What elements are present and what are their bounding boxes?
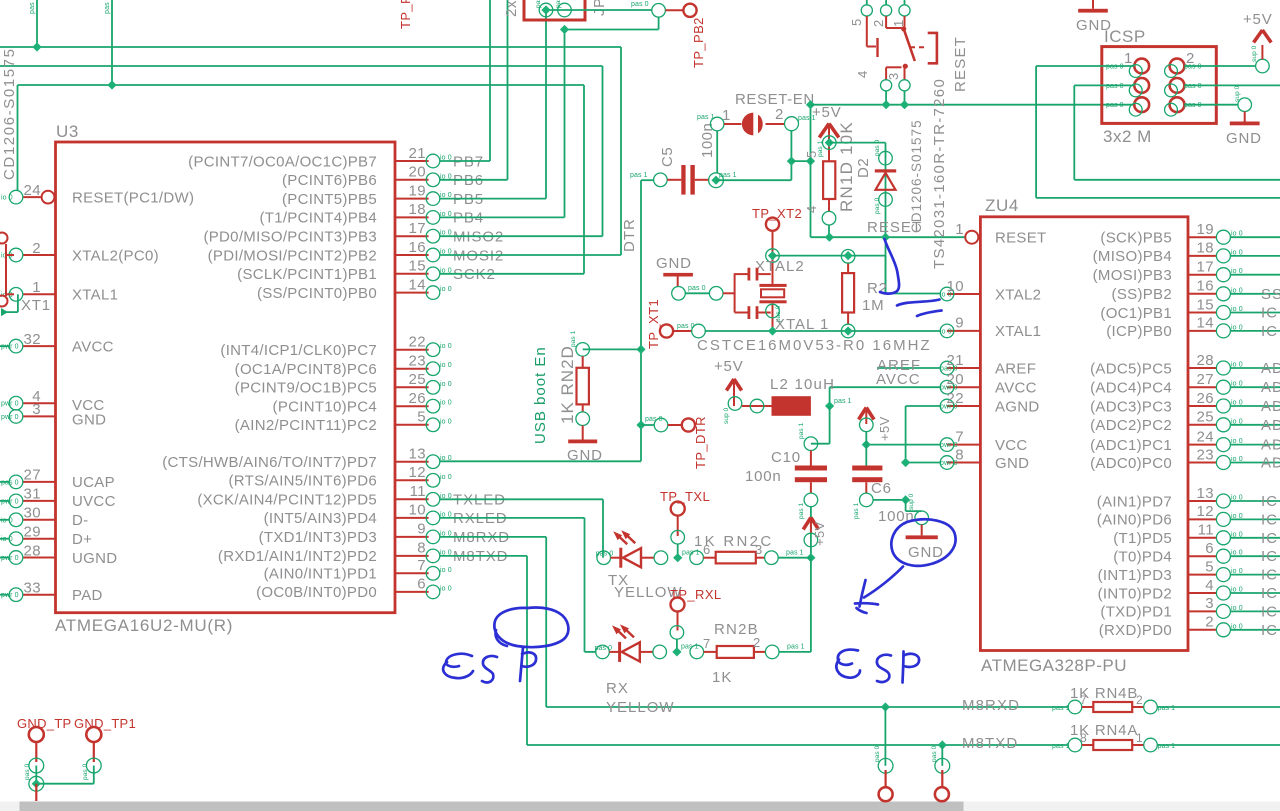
svg-text:7: 7 [417,557,426,574]
wire net PB6-top bus y66 [0,65,603,67]
svg-text:pas 1: pas 1 [834,398,852,405]
svg-text:2: 2 [1186,50,1194,67]
wire SJ1-1 down [716,131,718,173]
ZU4 pin 22 AGND [947,405,980,407]
svg-text:24: 24 [24,182,42,199]
wire +5V stem [828,126,830,162]
svg-text:pas 1: pas 1 [1158,743,1176,750]
button wires bottom [885,91,887,105]
wire GND_TP stem down [35,784,37,801]
svg-text:2: 2 [753,635,760,650]
svg-text:(INT0)PD2: (INT0)PD2 [1098,585,1172,602]
node TP_DTR junction [636,420,645,429]
svg-text:(INT5/AIN3)PD4: (INT5/AIN3)PD4 [264,510,377,527]
svg-text:(MISO)PB4: (MISO)PB4 [1093,248,1172,265]
svg-text:DTR: DTR [621,218,638,252]
U3 pin 19 (PCINT5)PB5 [395,198,429,200]
svg-text:33: 33 [24,580,42,597]
U3 pin 28 UGND [23,557,56,559]
svg-text:io 0: io 0 [440,400,452,407]
svg-text:pas 0: pas 0 [874,139,881,156]
wire JP pin1 row [546,9,652,11]
svg-text:GND: GND [908,544,944,561]
wire PB6 [440,179,508,181]
svg-text:sup 0: sup 0 [1251,45,1258,62]
ZU4 pin 14 (ICP)PB0 [1188,330,1217,332]
wire M8RXD [440,536,546,538]
U3 pin 25 (PCINT9/OC1B)PC5 [395,386,429,388]
svg-text:IC: IC [1261,548,1278,565]
U3 pin 29 D+ [23,538,56,540]
svg-text:ATMEGA328P-PU: ATMEGA328P-PU [981,656,1127,675]
annotation circle GND [891,519,955,565]
U3 pin 15 (SCLK/PCINT1)PB1 [395,273,429,275]
svg-text:16: 16 [409,239,427,256]
svg-text:14: 14 [1197,315,1215,332]
svg-text:pas 0: pas 0 [1184,102,1202,109]
ZU4 pin 5 (INT1)PD3 [1188,574,1217,576]
svg-text:pas: pas [535,0,542,8]
svg-text:io 0: io 0 [940,328,952,335]
IC U3 box [56,142,396,613]
svg-text:io 0: io 0 [440,362,452,369]
wire MISO2 [440,235,603,237]
svg-text:25: 25 [409,371,427,388]
U3 pin 27 UCAP [23,481,56,483]
svg-text:GND: GND [72,412,106,429]
svg-text:pas 1: pas 1 [853,502,860,519]
capacitor C10 [804,437,818,451]
svg-text:3: 3 [755,542,762,557]
jumper SJ1 body [724,123,742,125]
wire XT1 net [17,294,19,312]
svg-text:USB boot En: USB boot En [532,346,549,444]
svg-text:io 0: io 0 [1,195,13,202]
wire ICSP row1 right [1184,65,1255,67]
wire RESET to ZU4 [811,236,966,238]
svg-text:io 0: io 0 [440,343,452,350]
button S1 body [866,16,868,47]
power +5V TX rail [803,518,818,530]
svg-text:CSTCE16M0V53-R0 16MHZ: CSTCE16M0V53-R0 16MHZ [697,337,932,354]
svg-text:(ADC5)PC5: (ADC5)PC5 [1090,360,1172,377]
wire ICSP row2 right [1184,84,1280,86]
svg-text:RESET: RESET [952,36,969,92]
ZU4 pin 28 (ADC5)PC5 [1188,367,1217,369]
svg-text:AD: AD [1261,360,1280,377]
svg-text:5: 5 [417,409,426,426]
svg-text:pas 1: pas 1 [1052,743,1070,750]
jumper SJ1 pad2 [785,117,799,131]
svg-text:GND_TP1: GND_TP1 [74,716,136,731]
svg-text:(T1/PCINT4)PB4: (T1/PCINT4)PB4 [259,210,377,227]
svg-text:IC: IC [1261,305,1278,322]
svg-text:GND: GND [1226,130,1262,147]
ZU4 pin 18 (MISO)PB4 [1188,255,1217,257]
ZU4 pin 26 (ADC3)PC3 [1188,405,1217,407]
U3 pin 23 (OC1A/PCINT8)PC6 [395,368,429,370]
svg-text:GND_TP: GND_TP [17,716,72,731]
svg-text:(MOSI)PB3: (MOSI)PB3 [1093,267,1172,284]
svg-text:30: 30 [24,505,42,522]
svg-text:io 0: io 0 [1,536,13,543]
svg-text:1M: 1M [862,297,884,314]
svg-text:17: 17 [409,220,427,237]
ZU4 pin 20 AVCC [947,386,980,388]
svg-text:IC: IC [1261,530,1278,547]
svg-text:pas 0: pas 0 [1184,83,1202,90]
connector JP 2x box [524,0,585,20]
svg-text:IC: IC [1261,622,1278,639]
svg-text:1: 1 [1124,50,1132,67]
wire L2 to C10 [829,406,831,444]
svg-text:RESET(PC1/DW): RESET(PC1/DW) [72,189,194,206]
svg-text:pwr 0: pwr 0 [1,414,19,421]
wire DTR pin13 [440,460,641,462]
button pads bottom [881,80,892,91]
svg-text:1K RN2D: 1K RN2D [558,345,577,424]
U3 pin 4 VCC [23,402,56,404]
wire C5 to DTR riser [641,179,654,181]
svg-text:io 0: io 0 [440,585,452,592]
svg-text:5: 5 [1205,558,1214,575]
node TP_RXL junction [672,647,681,656]
svg-text:6: 6 [703,542,710,557]
svg-text:+5V: +5V [877,416,892,441]
resistor RN1D [823,161,835,199]
capacitor C5 [654,173,668,187]
svg-text:RESET: RESET [995,230,1047,247]
svg-text:C5: C5 [659,147,676,167]
svg-text:pas 0: pas 0 [677,323,695,330]
svg-text:(OC0B/INT0)PD0: (OC0B/INT0)PD0 [256,584,377,601]
testpoint TP_PB [652,4,666,18]
svg-text:25: 25 [1197,409,1215,426]
svg-text:7: 7 [1080,693,1087,707]
svg-text:5: 5 [849,19,864,26]
wire RXLED [440,517,585,519]
wire RN4A right [1157,744,1280,746]
svg-text:CD1206-S01575: CD1206-S01575 [1,47,18,180]
svg-text:UCAP: UCAP [72,474,115,491]
resonator Y1 bracket [734,273,736,312]
wire ICSP row1 left [1036,65,1134,67]
svg-text:AD: AD [1261,417,1280,434]
svg-text:IC: IC [1261,603,1278,620]
svg-text:(AIN2/PCINT11)PC2: (AIN2/PCINT11)PC2 [235,417,377,434]
svg-text:pas 1: pas 1 [1052,705,1070,712]
U3 pin 2 XTAL2(PC0) [23,254,56,256]
svg-text:(PCINT5)PB5: (PCINT5)PB5 [282,191,377,208]
wire GND [906,462,941,464]
U3 pin 32 AVCC [23,345,56,347]
svg-text:pas 0: pas 0 [1,479,19,486]
U3 pin 11 (XCK/AIN4/PCINT12)PD5 [395,498,429,500]
node XTAL2 junction [766,249,780,263]
ground GND C6 [915,511,929,525]
wire jog to reset riser [791,160,810,162]
wire PB7 [440,160,490,162]
svg-text:pas 1: pas 1 [719,172,737,179]
wire SJ1-2 down [790,131,792,181]
svg-text:pwr 0: pwr 0 [1,592,19,599]
U3 pin 20 (PCINT6)PB6 [395,179,429,181]
svg-text:8: 8 [955,446,964,463]
svg-text:27: 27 [1197,371,1215,388]
wire TX to RX rail [810,558,812,652]
svg-text:(SCK)PB5: (SCK)PB5 [1100,230,1172,247]
wire AGND [906,405,941,407]
U3 pin 14 (SS/PCINT0)PB0 [395,292,429,294]
svg-text:pas 0: pas 0 [1106,64,1124,71]
svg-text:7: 7 [955,428,964,445]
ZU4 pin 4 (INT0)PD2 [1188,592,1217,594]
svg-text:20: 20 [409,164,427,181]
wire TXLED [440,498,603,500]
ZU4 pin 13 (AIN1)PD7 [1188,500,1217,502]
U3 pin 22 (INT4/ICP1/CLK0)PC7 [395,349,429,351]
svg-text:(SS)PB2: (SS)PB2 [1112,286,1172,303]
jumper SJ1 pad1 [710,117,724,131]
svg-text:6: 6 [417,576,426,593]
resistor R2 [847,262,849,273]
testpoint GND_TP [29,727,44,742]
svg-text:io 0: io 0 [440,418,452,425]
U3 pin 24 RESET(PC1/DW) [23,196,42,198]
svg-text:(T0)PD4: (T0)PD4 [1113,549,1172,566]
svg-text:pas 1: pas 1 [786,550,804,557]
svg-text:io 0: io 0 [440,567,452,574]
svg-text:3: 3 [32,401,41,418]
svg-text:28: 28 [24,542,42,559]
svg-text:TP_RXL: TP_RXL [670,587,722,602]
wire M8TXD [440,555,527,557]
diode D2 column [885,143,887,294]
ZU4 pin 11 (T1)PD5 [1188,537,1217,539]
svg-text:AVCC: AVCC [876,371,921,388]
svg-text:PAD: PAD [72,587,103,604]
svg-text:sup 0: sup 0 [908,493,915,510]
svg-text:(RXD1/AIN1/INT2)PD2: (RXD1/AIN1/INT2)PD2 [218,548,377,565]
node RN1D bottom [828,199,830,212]
ZU4 pin 7 VCC [947,444,980,446]
svg-text:(AIN0/INT1)PD1: (AIN0/INT1)PD1 [264,566,377,583]
svg-text:TP_TXL: TP_TXL [660,489,710,504]
svg-text:(ADC1)PC1: (ADC1)PC1 [1090,437,1172,454]
svg-text:AD: AD [1261,455,1280,472]
svg-text:pas 1: pas 1 [697,114,715,121]
svg-text:(OC1)PB1: (OC1)PB1 [1100,305,1172,322]
wire XTAL1 net [692,324,706,338]
svg-text:pwr 0: pwr 0 [1,344,19,351]
svg-text:16: 16 [1197,278,1215,295]
ZU4 pin 25 (ADC2)PC2 [1188,424,1217,426]
svg-text:pas 0: pas 0 [688,285,706,292]
svg-text:U3: U3 [56,122,79,141]
svg-text:TP_XT1: TP_XT1 [646,299,661,349]
svg-text:pas 1: pas 1 [798,502,805,519]
svg-text:1K: 1K [712,669,732,686]
svg-text:(INT1)PD3: (INT1)PD3 [1098,567,1172,584]
node M8TXD tp drop [938,740,947,749]
U3 pin 8 (RXD1/AIN1/INT2)PD2 [395,555,429,557]
svg-text:11: 11 [1198,522,1214,539]
U3 pin 18 (T1/PCINT4)PB4 [395,216,429,218]
svg-text:sup 0: sup 0 [1234,85,1241,102]
svg-text:AREF: AREF [995,360,1036,377]
testpoint bottom left [878,758,893,773]
power +5V ICSP [1261,45,1263,59]
resonator gnd pin [672,287,686,301]
svg-text:AD: AD [1261,379,1280,396]
svg-text:17: 17 [1197,259,1215,276]
svg-text:1: 1 [32,279,41,296]
annotation ESP left [446,654,472,667]
svg-text:TP_DTR: TP_DTR [693,416,708,469]
svg-text:(RXD)PD0: (RXD)PD0 [1099,622,1172,639]
ZU4 pin 17 (MOSI)PB3 [1188,274,1217,276]
diode D2 [879,151,893,165]
svg-text:C6: C6 [871,480,892,497]
svg-text:io 0: io 0 [440,381,452,388]
svg-text:10: 10 [947,278,965,295]
wire ICSP row2 right-rail [1074,179,1280,181]
svg-text:pwr 0: pwr 0 [1,498,19,505]
annotation circle left [494,608,568,648]
svg-text:3: 3 [1205,595,1214,612]
U3 pin 5 (AIN2/PCINT11)PC2 [395,424,429,426]
svg-text:TP_PB1: TP_PB1 [398,0,413,29]
svg-text:XTAL2: XTAL2 [995,286,1041,303]
svg-text:26: 26 [409,390,427,407]
svg-text:(SS/PCINT0)PB0: (SS/PCINT0)PB0 [257,285,377,302]
svg-text:(ICP)PB0: (ICP)PB0 [1106,323,1172,340]
svg-text:22: 22 [947,390,965,407]
svg-text:D+: D+ [72,531,92,548]
ZU4 RESET bubble [965,231,978,244]
node TX junction [806,553,815,562]
testpoint bottom right [935,758,950,773]
wire C5jn right [716,179,791,181]
ZU4 pin 2 (RXD)PD0 [1188,629,1217,631]
svg-text:4: 4 [855,71,870,78]
svg-text:(PDI/MOSI/PCINT2)PB2: (PDI/MOSI/PCINT2)PB2 [208,247,377,264]
svg-text:(ADC4)PC4: (ADC4)PC4 [1090,380,1172,397]
node M8RXD tp drop [881,702,890,711]
wire pin24 riser [17,85,19,191]
svg-text:23: 23 [1197,446,1215,463]
header ICSP box [1102,47,1217,124]
svg-text:100n: 100n [699,123,716,158]
svg-text:XTAL1: XTAL1 [72,287,118,304]
wire JP pin2 row [565,29,659,31]
svg-text:32: 32 [24,331,42,348]
U3 pin 26 (PCINT10)PC4 [395,405,429,407]
wire PB4 [440,216,565,218]
U3 pin 13 (CTS/HWB/AIN6/TO/INT7)PD7 [395,461,429,463]
svg-text:23: 23 [409,353,427,370]
svg-text:(PD0/MISO/PCINT3)PB3: (PD0/MISO/PCINT3)PB3 [203,229,377,246]
testpoint GND_TP1 [86,727,101,742]
wire PB5 [440,198,546,200]
svg-text:4: 4 [804,206,819,213]
svg-text:(RTS/AIN5/INT6)PD6: (RTS/AIN5/INT6)PD6 [229,473,378,490]
svg-text:(SCLK/PCINT1)PB1: (SCLK/PCINT1)PB1 [237,266,377,283]
U3 pin 1 XTAL1 [23,293,56,295]
svg-text:sup 0: sup 0 [723,407,730,424]
svg-text:AD: AD [1261,398,1280,415]
wire RESET riser x810 [810,105,812,238]
svg-text:9: 9 [955,315,964,332]
wire ICSP row3 right [1184,104,1238,106]
U3 pin 7 (AIN0/INT1)PD1 [395,572,429,574]
LED TX [597,551,611,565]
svg-text:(TXD)PD1: (TXD)PD1 [1100,604,1172,621]
ZU4 pin 10 XTAL2 [947,293,980,295]
svg-text:pas 0: pas 0 [82,763,89,780]
svg-text:pas 0: pas 0 [595,645,613,652]
resistor RN2D [576,343,590,357]
svg-text:15: 15 [409,258,427,275]
IC ZU4 box [980,217,1188,651]
svg-text:(TXD1/INT3)PD3: (TXD1/INT3)PD3 [259,529,377,546]
crystal XT1 [5,244,7,296]
svg-text:(ADC2)PC2: (ADC2)PC2 [1090,417,1172,434]
svg-text:CD1206-S01575: CD1206-S01575 [909,119,924,233]
button wires top [866,0,868,5]
testpoint TP_DTR [641,424,654,426]
svg-text:3x2 M: 3x2 M [1103,127,1152,146]
svg-text:18: 18 [1197,240,1215,257]
svg-text:pas 0: pas 0 [874,197,881,214]
svg-text:(PCINT10)PC4: (PCINT10)PC4 [273,399,377,416]
svg-text:2: 2 [32,240,41,257]
wire XTAL2 net [773,255,886,257]
wire net PB5-top bus y47 [0,46,621,48]
resonator crystal [759,284,786,287]
scrollbar thumb [20,802,964,811]
svg-text:20: 20 [947,371,965,388]
svg-text:9: 9 [417,521,426,538]
U3 pin 30 D- [23,519,56,521]
svg-text:GND: GND [567,447,603,464]
ZU4 pin 8 GND [947,462,980,464]
svg-text:(ADC0)PC0: (ADC0)PC0 [1090,455,1172,472]
svg-text:io 0: io 0 [440,474,452,481]
wire AVCC [830,386,941,388]
svg-text:pas 0: pas 0 [24,763,31,780]
U3 pin 3 GND [23,415,56,417]
scrollbar track [0,802,1280,811]
svg-text:6: 6 [1205,540,1214,557]
resonator caps [748,268,751,281]
ZU4 pin 27 (ADC4)PC4 [1188,386,1217,388]
svg-text:7: 7 [703,636,710,651]
svg-text:XTAL 1: XTAL 1 [775,316,829,333]
svg-text:(ADC3)PC3: (ADC3)PC3 [1090,398,1172,415]
svg-text:TP_PB2: TP_PB2 [691,17,706,68]
svg-text:(PCINT7/OC0A/OC1C)PB7: (PCINT7/OC0A/OC1C)PB7 [188,153,377,170]
svg-text:12: 12 [409,464,427,481]
svg-text:2: 2 [1136,693,1143,707]
svg-text:18: 18 [409,201,427,218]
U3 pin 6 (OC0B/INT0)PD0 [395,591,429,593]
power +5V arrow [819,124,839,138]
svg-text:13: 13 [1197,485,1215,502]
wire GND_TP link [93,766,95,784]
svg-text:pas 0: pas 0 [1106,83,1124,90]
svg-text:28: 28 [1197,352,1215,369]
